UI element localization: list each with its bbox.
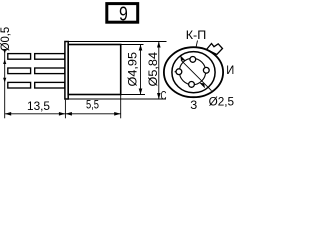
- leader arrow lower-right: [199, 83, 205, 89]
- svg-text:13,5: 13,5: [27, 101, 50, 113]
- extension line under body right edge: [120, 95, 122, 119]
- arrow bottom Ø4,95: [139, 89, 143, 95]
- svg-text:К-П: К-П: [186, 28, 207, 42]
- tick at pin С: [175, 71, 177, 73]
- dimension arrow above lead 3: [3, 78, 6, 83]
- lead 3 (bottom) segment A: [8, 82, 31, 88]
- extension line flange bottom: [65, 98, 166, 100]
- svg-text:5,5: 5,5: [86, 99, 99, 111]
- leader arrow upper-left: [180, 55, 186, 61]
- svg-text:9: 9: [119, 3, 128, 26]
- pin И (right): [203, 67, 209, 73]
- bottom view: inner ellipse (can body outline): [172, 52, 215, 93]
- extension line body bottom: [121, 94, 145, 96]
- arrow bottom Ø5,84: [157, 93, 161, 99]
- bottom view: pin circle: [179, 58, 205, 84]
- arrow top Ø5,84: [157, 42, 161, 48]
- dimension line 13,5: [5, 113, 66, 115]
- lead 3 (bottom) segment B: [35, 82, 65, 88]
- extension line under flange: [64, 100, 66, 119]
- dimension line Ø4,95: [140, 45, 142, 95]
- extension line flange top: [65, 41, 167, 43]
- dimension Ø0,5 arrow below lead 1: [3, 59, 6, 64]
- arrow left of 13,5: [5, 112, 12, 116]
- dimension Ø0,5 vertical line at lead tips: [4, 51, 6, 118]
- bottom view: case tab (key): [207, 44, 223, 55]
- transistor can flange (side view): [65, 42, 68, 100]
- pin С (left): [176, 69, 182, 75]
- dimension line Ø5,84: [158, 42, 160, 100]
- arrow top Ø4,95: [139, 45, 143, 51]
- svg-text:И: И: [226, 63, 234, 77]
- lead 2 (middle) segment B: [35, 68, 65, 74]
- arrow left of 5,5: [65, 112, 72, 116]
- leader line Ø2,5 (diagonal): [181, 60, 212, 90]
- svg-text:С: С: [161, 89, 167, 103]
- lead 1 (top) segment A: [8, 54, 31, 60]
- svg-text:Ø0,5: Ø0,5: [0, 27, 12, 52]
- dimension Ø0,5 arrow above lead 1: [3, 49, 6, 54]
- lead 2 (middle) segment A: [8, 68, 31, 74]
- pin З (bottom): [189, 82, 195, 88]
- pin К-П (top): [190, 57, 196, 63]
- svg-text:Ø4,95: Ø4,95: [127, 52, 139, 87]
- svg-text:Ø2,5: Ø2,5: [209, 95, 235, 109]
- transistor can body (side view): [68, 45, 121, 95]
- figure number box "9": [107, 3, 138, 26]
- svg-text:З: З: [190, 98, 197, 112]
- arrow right of 5,5: [114, 112, 121, 116]
- bottom view: outer ellipse (flange outline): [164, 47, 223, 97]
- leader stub К-П: [196, 41, 198, 48]
- arrow right of 13,5: [59, 112, 66, 116]
- dimension line 5,5: [65, 113, 120, 115]
- extension line body top: [121, 44, 144, 46]
- svg-text:Ø5,84: Ø5,84: [148, 51, 160, 86]
- lead 1 (top) segment B: [35, 54, 65, 60]
